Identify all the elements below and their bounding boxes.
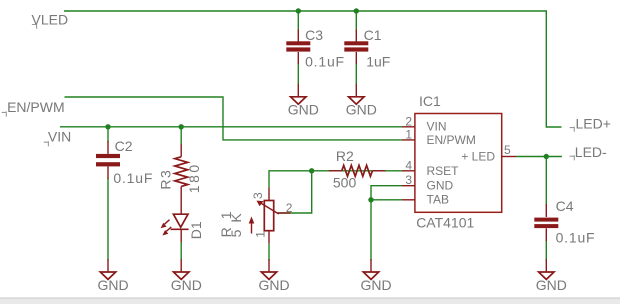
svg-text:C3: C3: [305, 27, 323, 43]
node VLED label tick: [32, 24, 37, 29]
wire C2 column: [107, 127, 109, 260]
wire C4 column: [545, 157, 547, 261]
svg-text:GND: GND: [259, 277, 290, 293]
svg-text:VIN: VIN: [427, 120, 447, 134]
svg-text:5: 5: [504, 143, 511, 157]
wire EN/PWM net: [65, 97, 403, 140]
bottom scrollbar strip: [0, 298, 620, 304]
svg-text:3: 3: [251, 192, 265, 199]
svg-text:LED+: LED+: [576, 116, 611, 132]
svg-text:GND: GND: [427, 178, 454, 192]
capacitor C1: [344, 27, 390, 70]
svg-text:EN/PWM: EN/PWM: [7, 99, 65, 115]
svg-text:IC1: IC1: [419, 93, 441, 109]
ground under C4: [536, 259, 567, 293]
ground under C1: [346, 84, 377, 118]
svg-text:VLED: VLED: [32, 11, 69, 27]
svg-text:+ LED: + LED: [461, 149, 495, 163]
svg-text:3: 3: [405, 173, 412, 187]
net label LED-: [570, 144, 607, 160]
svg-text:EN/PWM: EN/PWM: [427, 133, 476, 147]
svg-text:RSET: RSET: [427, 164, 460, 178]
svg-text:GND: GND: [171, 277, 202, 293]
ground under C3: [288, 84, 319, 118]
capacitor C4: [534, 198, 595, 246]
potentiometer R1: [218, 188, 293, 261]
svg-text:GND: GND: [98, 277, 129, 293]
wire R3/D1 column: [180, 127, 182, 260]
svg-text:2: 2: [286, 201, 293, 215]
svg-text:VIN: VIN: [48, 128, 71, 144]
svg-text:GND: GND: [536, 277, 567, 293]
svg-text:GND: GND: [361, 277, 392, 293]
svg-text:500: 500: [333, 174, 357, 190]
svg-text:1: 1: [405, 127, 412, 141]
svg-text:R3: R3: [157, 169, 173, 190]
capacitor C2: [96, 138, 153, 186]
net label EN/PWM: [2, 99, 65, 117]
svg-text:LED-: LED-: [575, 144, 607, 160]
wire C3 column: [297, 11, 299, 85]
wire VLED top rail: [64, 11, 562, 127]
net label VIN: [44, 128, 72, 146]
wire pin3/TAB gnd net: [371, 186, 402, 200]
svg-text:TAB: TAB: [427, 193, 449, 207]
op-amp IC1 CAT4101: [402, 93, 516, 231]
resistor R3: [157, 144, 202, 200]
svg-text:CAT4101: CAT4101: [416, 215, 474, 231]
svg-text:1uF: 1uF: [366, 54, 390, 70]
ground under D1: [171, 259, 202, 293]
svg-text:0.1uF: 0.1uF: [113, 170, 153, 186]
svg-text:0.1uF: 0.1uF: [305, 54, 345, 70]
resistor R2: [329, 148, 386, 190]
wire LED- net: [516, 156, 562, 158]
svg-text:180: 180: [186, 162, 202, 193]
LED D1: [161, 200, 204, 242]
svg-text:R2: R2: [336, 148, 354, 164]
net label VLED: [32, 11, 69, 27]
capacitor C3: [286, 27, 345, 70]
svg-text:C2: C2: [115, 138, 133, 154]
wire RSET net (pot/R2 row): [269, 171, 402, 188]
svg-text:GND: GND: [288, 102, 319, 118]
svg-text:2: 2: [405, 114, 412, 128]
wire VIN net: [60, 126, 402, 128]
ground under R1: [259, 259, 290, 293]
node junction dots: [105, 8, 549, 202]
svg-text:C1: C1: [364, 27, 382, 43]
svg-text:5K: 5K: [228, 206, 244, 237]
wire C1 column: [355, 11, 357, 85]
svg-text:4: 4: [405, 158, 412, 172]
net label LED+: [570, 116, 611, 132]
ground under IC: [361, 259, 392, 293]
wire wiper branch: [278, 171, 312, 213]
svg-text:0.1uF: 0.1uF: [556, 230, 596, 246]
svg-text:C4: C4: [556, 198, 574, 214]
svg-text:GND: GND: [346, 102, 377, 118]
svg-text:D1: D1: [188, 221, 204, 239]
svg-text:1: 1: [253, 231, 267, 238]
ground under C2: [98, 259, 129, 293]
